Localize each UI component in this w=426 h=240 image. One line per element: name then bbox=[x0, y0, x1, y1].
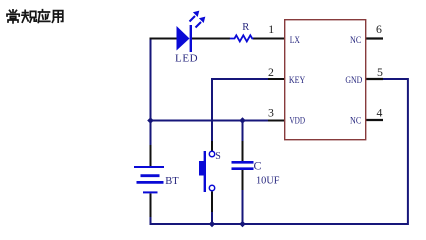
svg-text:5: 5 bbox=[377, 65, 383, 79]
capacitor C pins (top and bottom leads) bbox=[242, 141, 244, 190]
node junction at VDD/left rail bbox=[147, 117, 154, 124]
wire: switch branch vertical (KEY corner down) bbox=[211, 78, 213, 141]
wire: left vertical (top corner to VDD junction) bbox=[150, 38, 152, 121]
battery BT pin bottom bbox=[150, 194, 152, 218]
规 bbox=[22, 10, 36, 22]
wire: resistor to pin 1 bbox=[253, 38, 285, 40]
node junction at bottom rail/switch bbox=[209, 221, 215, 227]
wire: capacitor branch upper bbox=[242, 121, 244, 142]
battery BT plates bbox=[134, 167, 164, 192]
svg-text:4: 4 bbox=[377, 106, 383, 120]
node junction at bottom rail/capacitor bbox=[239, 221, 245, 227]
pin 2 stub bbox=[268, 78, 285, 80]
svg-text:6: 6 bbox=[376, 22, 382, 36]
wire: VDD horizontal from pin 3 bbox=[151, 120, 269, 122]
pin 3 stub bbox=[268, 120, 285, 122]
svg-text:LED: LED bbox=[175, 52, 198, 64]
LED D1 bbox=[177, 11, 206, 52]
wire: switch to bottom rail bbox=[211, 212, 213, 224]
battery BT pin top bbox=[150, 145, 152, 166]
svg-text:NC: NC bbox=[350, 35, 361, 45]
wire: bottom-left corner and bottom rail bbox=[151, 217, 409, 224]
svg-text:10UF: 10UF bbox=[256, 175, 280, 187]
switch S pins (top and bottom leads) bbox=[211, 141, 213, 212]
svg-text:VDD: VDD bbox=[290, 116, 306, 126]
switch S bbox=[199, 151, 215, 192]
用 bbox=[52, 11, 62, 23]
resistor R bbox=[230, 35, 254, 41]
wire: top rail segment left of LED bbox=[150, 38, 178, 40]
wire: capacitor to bottom rail bbox=[242, 190, 244, 224]
svg-text:3: 3 bbox=[268, 106, 274, 120]
svg-text:S: S bbox=[215, 151, 221, 162]
capacitor C plates bbox=[232, 162, 254, 168]
svg-text:KEY: KEY bbox=[289, 75, 306, 85]
svg-text:C: C bbox=[254, 159, 262, 173]
wire: KEY horizontal from pin 2 bbox=[213, 78, 268, 80]
pin 6 stub bbox=[366, 37, 383, 39]
wire: left vertical below junction to battery bbox=[150, 121, 152, 146]
IC U1 body bbox=[285, 20, 366, 140]
svg-text:LX: LX bbox=[290, 35, 301, 45]
svg-text:2: 2 bbox=[268, 65, 274, 79]
wire: right vertical from GND to bottom rail bbox=[383, 79, 408, 225]
svg-text:1: 1 bbox=[268, 22, 274, 36]
title 常规应用 bbox=[7, 10, 63, 23]
node junction at VDD/capacitor branch bbox=[239, 117, 246, 124]
svg-text:NC: NC bbox=[350, 116, 361, 126]
pin 5 stub bbox=[366, 78, 383, 80]
svg-text:BT: BT bbox=[165, 176, 179, 187]
svg-text:R: R bbox=[242, 22, 249, 33]
wire: LED to resistor bbox=[191, 38, 230, 40]
pin 4 stub bbox=[366, 119, 383, 121]
应 bbox=[38, 10, 50, 23]
svg-text:GND: GND bbox=[345, 75, 362, 85]
常 bbox=[7, 10, 19, 23]
